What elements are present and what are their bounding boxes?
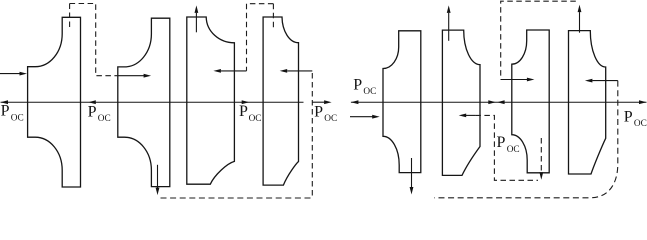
left arrow shaft into disc 8 xyxy=(592,80,617,82)
left arrow shaft in disc 3 xyxy=(221,70,247,72)
svg-text:P: P xyxy=(1,103,10,120)
svg-text:OC: OC xyxy=(363,87,376,97)
left arrow shaft in disc 4 xyxy=(287,70,312,72)
up arrow shaft disc 8 xyxy=(579,12,581,33)
svg-text:P: P xyxy=(88,103,97,120)
arrowhead left at disc 1 right side xyxy=(88,100,96,104)
disc 7 xyxy=(512,30,549,173)
dashed path right side with rounded corner to bottom xyxy=(434,81,618,198)
arrowhead up disc 6 xyxy=(447,5,451,12)
disc 4 xyxy=(263,17,298,185)
left arrow shaft into disc 6 xyxy=(466,114,475,116)
disc 3 xyxy=(187,17,235,184)
dashed path over disc 1 to disc 2 xyxy=(70,4,118,76)
arrowhead into disc 1 xyxy=(20,72,28,76)
svg-text:OC: OC xyxy=(507,145,520,155)
arrowhead up disc 3 xyxy=(195,5,199,12)
dashed tail of disc 6 arrow going down and under disc 7 xyxy=(475,115,538,180)
disc 8 xyxy=(569,31,606,174)
arrowhead right into disc 7 xyxy=(527,78,535,82)
arrowhead left end of centerline xyxy=(1,100,9,104)
dashed vent through disc 7 bottom xyxy=(540,138,542,172)
right arrow shaft after disc 4 xyxy=(312,101,324,103)
disc 1 xyxy=(28,17,81,187)
arrowhead right between disc 3 and 4 xyxy=(242,100,250,104)
arrowhead left in disc 4 xyxy=(280,69,288,73)
dashed vent in disc 1 stem xyxy=(69,4,71,31)
centerline left group xyxy=(1,101,304,103)
svg-text:P: P xyxy=(314,103,323,120)
arrowhead right end of centerline xyxy=(639,100,647,104)
arrowhead down under disc 5 xyxy=(410,187,414,195)
disc 5 xyxy=(383,31,421,173)
svg-text:OC: OC xyxy=(98,114,111,124)
arrowhead down through disc 7 xyxy=(539,172,543,180)
bottom dashed line left group xyxy=(161,197,312,199)
disc 2 xyxy=(118,18,170,186)
svg-text:OC: OC xyxy=(324,114,337,124)
arrowhead right after disc 4 xyxy=(324,100,332,104)
disc 6 xyxy=(442,30,480,175)
up arrow shaft disc 3 xyxy=(195,13,197,32)
svg-text:OC: OC xyxy=(11,113,24,123)
arrowhead up disc 8 xyxy=(578,5,582,13)
arrowhead left at start of right group xyxy=(351,100,359,104)
dashed path top right from disc 8 arrow to disc 7 arrow xyxy=(501,1,576,79)
arrow shaft into disc 2 xyxy=(117,75,144,77)
arrow shaft into disc 1 xyxy=(0,73,20,75)
dashed vent in disc 4 stem xyxy=(272,4,274,29)
svg-text:P: P xyxy=(239,103,248,120)
dashed drop from disc 4 arrow elbow to bottom xyxy=(311,73,313,198)
svg-text:P: P xyxy=(353,76,362,93)
arrowhead into disc 2 xyxy=(144,74,152,78)
svg-text:OC: OC xyxy=(249,114,262,124)
arrowhead right mid right group xyxy=(488,100,496,104)
svg-text:OC: OC xyxy=(634,119,647,129)
arrowhead right below R1 xyxy=(372,115,380,119)
svg-text:P: P xyxy=(497,134,506,151)
right arrow shaft into disc 7 xyxy=(501,79,527,81)
arrowhead left in disc 3 xyxy=(213,69,221,73)
down arrow shaft under disc 2 xyxy=(157,165,159,188)
down arrow shaft under disc 5 xyxy=(411,158,413,187)
dashed path from disc 4 stem to disc 3 arrow xyxy=(247,4,274,71)
up arrow shaft disc 6 xyxy=(448,13,450,41)
arrowhead left into disc 8 xyxy=(585,79,593,83)
centerline right group xyxy=(351,101,647,103)
arrowhead down under disc 2 xyxy=(156,188,160,196)
right arrow shaft below R1 label xyxy=(350,116,373,118)
svg-text:P: P xyxy=(624,108,633,125)
arrowhead left mid right group xyxy=(497,100,505,104)
arrowhead left into disc 6 xyxy=(459,114,467,118)
